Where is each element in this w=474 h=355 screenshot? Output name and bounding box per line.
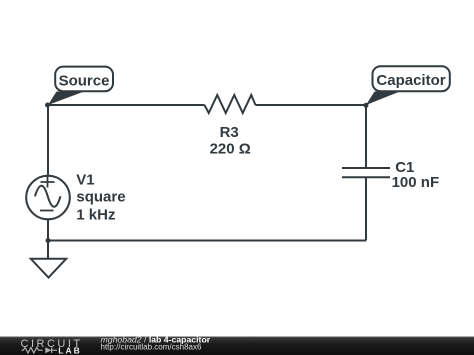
callout Source tail	[48, 92, 84, 106]
svg-text:1 kHz: 1 kHz	[76, 206, 115, 223]
footer bar	[0, 337, 474, 355]
wire bottom rail	[48, 240, 366, 242]
wire left lower (V1 to junction)	[47, 219, 49, 241]
voltage source V1 minus sign	[40, 210, 54, 212]
wire top-right (R3 to node B)	[256, 104, 367, 106]
ground symbol	[31, 259, 66, 278]
voltage source V1 sine wave	[35, 186, 61, 207]
wire top-left (node A to R3)	[48, 104, 205, 106]
capacitor C1 bottom plate	[342, 176, 390, 178]
logo schematic line with resistor and diode	[22, 347, 58, 353]
callout Capacitor tail	[366, 92, 400, 106]
node B (Capacitor node)	[364, 103, 369, 108]
callout Source box	[55, 67, 113, 92]
node A (Source node)	[45, 103, 50, 108]
svg-text:V1: V1	[76, 172, 94, 189]
wire right upper (node B to C1)	[365, 105, 367, 168]
svg-text:square: square	[76, 189, 125, 206]
svg-text:LAB: LAB	[58, 345, 81, 355]
junction node bottom-left	[46, 238, 51, 243]
logo diode triangle	[45, 347, 51, 353]
svg-text:Source: Source	[59, 72, 110, 89]
svg-text:100 nF: 100 nF	[392, 174, 440, 191]
wire ground stem	[47, 241, 49, 259]
voltage source V1 circle	[26, 176, 70, 220]
svg-text:R3: R3	[220, 124, 239, 141]
voltage source V1 plus sign	[41, 177, 55, 188]
capacitor C1 top plate	[342, 167, 390, 169]
resistor R3 zigzag	[205, 95, 256, 113]
svg-text:220 Ω: 220 Ω	[210, 140, 251, 157]
wire right lower (C1 to bottom rail)	[365, 177, 367, 240]
svg-text:http://circuitlab.com/csh8ax6: http://circuitlab.com/csh8ax6	[101, 343, 202, 352]
svg-text:Capacitor: Capacitor	[376, 72, 445, 89]
callout Capacitor box	[373, 66, 450, 91]
wire left upper (node A to V1)	[47, 105, 49, 175]
